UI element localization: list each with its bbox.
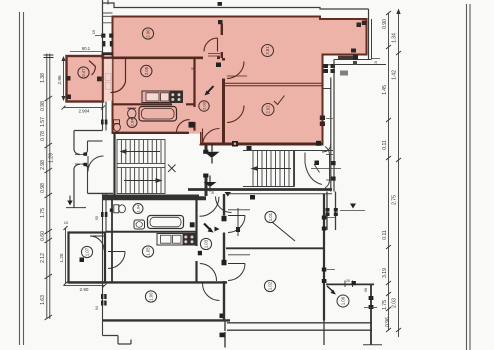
stair flights box (117, 140, 165, 194)
loggia height dim line with double arrow (63, 57, 65, 100)
window dim ticks right rooms (327, 218, 335, 270)
svg-text:1.75: 1.75 (382, 300, 388, 310)
svg-text:1.75: 1.75 (40, 208, 46, 218)
room label circle bath upper (127, 118, 137, 128)
building right wall inner line (371, 19, 373, 59)
entrance inner top wall (88, 140, 103, 142)
stair cross marks (168, 165, 176, 173)
lightwell window jambs (324, 64, 329, 68)
lower hall door jamb mark (198, 251, 202, 256)
bottom-left room door arc pair (200, 264, 217, 282)
svg-text:2.06: 2.06 (146, 29, 151, 38)
stairwell right wall with door opening (205, 146, 208, 197)
lower bath sink (134, 220, 145, 229)
room label circle hall upper (199, 101, 209, 111)
room label circle bottom-right room (337, 295, 349, 307)
extension top wall ticks (345, 281, 353, 288)
room label circle room B (262, 45, 274, 57)
svg-text:2.90: 2.90 (80, 287, 89, 292)
right wall dim tick (372, 58, 381, 60)
rear wing dim tick and arrow (340, 210, 365, 212)
room D pointer line (272, 222, 295, 241)
loggia wall ticks (66, 76, 71, 81)
bathtub upper apartment (139, 107, 177, 122)
room label circle lower hall (200, 238, 211, 249)
lightwell sill marks (340, 71, 348, 76)
svg-text:55: 55 (95, 216, 99, 220)
door arc hall to room B (227, 62, 244, 79)
rear wing double wall below landing (327, 192, 336, 231)
corridor spine thin wall (237, 208, 239, 236)
rooms D/E divider wall (226, 247, 324, 249)
svg-text:1.04: 1.04 (135, 204, 140, 213)
section mark upper (umbrella) (211, 144, 213, 152)
svg-text:15: 15 (91, 29, 96, 34)
room label circle room E (264, 280, 275, 291)
top wall window mark 2 (218, 20, 223, 24)
svg-text:1.38: 1.38 (40, 73, 46, 83)
svg-text:94: 94 (95, 306, 99, 310)
building top exterior wall outer line (103, 3, 369, 9)
svg-text:2.98: 2.98 (40, 160, 46, 170)
entrance threshold blocks (84, 152, 88, 155)
pink bottom-right wall mark (316, 141, 321, 146)
entrance inner bottom wall (88, 192, 114, 194)
lower apartment top wall (103, 195, 199, 198)
stair upper flight treads (121, 140, 161, 164)
room label circle lower WC (133, 204, 143, 214)
svg-text:90.1: 90.1 (82, 46, 91, 51)
small down arrow near stair foot (225, 192, 232, 197)
bottom-right extension right wall (370, 284, 372, 345)
room label circle room A (142, 28, 153, 39)
lower kitchen sink basins (161, 235, 172, 243)
main stair arrow pointing left (256, 168, 291, 170)
interior wall hall left (kitchen side) (193, 58, 195, 133)
svg-text:1.20: 1.20 (59, 253, 64, 262)
lower bathtub (148, 216, 184, 229)
stair handrail double line (117, 163, 165, 167)
room label circle bottom-left room (145, 291, 156, 302)
lower hall entrance arrow (204, 224, 211, 231)
stair lower flight treads (121, 168, 161, 194)
room C wall mark black square (232, 141, 238, 147)
svg-text:2.12: 2.12 (40, 253, 46, 263)
lower hall top door arc (200, 197, 220, 217)
svg-text:0.11: 0.11 (382, 230, 388, 240)
svg-text:2.75: 2.75 (392, 195, 398, 205)
right chain rotated dimension texts (382, 19, 398, 327)
kitchen balcony door leaf and arc (111, 59, 126, 93)
left wall lower window jambs (101, 212, 104, 217)
svg-text:1.08: 1.08 (341, 296, 346, 305)
building left wall stub (107, 0, 109, 5)
pink apartment main area (113, 17, 367, 145)
building bottom-left corner steps (103, 336, 132, 345)
tick mark check room C (274, 96, 285, 105)
svg-text:1.01: 1.01 (268, 212, 273, 221)
top-right wall window marks (357, 23, 362, 28)
passage pinch walls (325, 147, 330, 189)
landing door leaf and swing arc (305, 153, 322, 185)
stairwell bottom wall thick (103, 196, 206, 200)
svg-text:2.904: 2.904 (79, 109, 91, 114)
right chain B line with arrow (398, 13, 400, 337)
lower-left width dim line (64, 285, 105, 287)
bottom-right diagonal arrow (327, 286, 334, 292)
room E window jambs (322, 268, 327, 272)
rear wing wall window marks (331, 161, 336, 165)
svg-text:90: 90 (191, 67, 195, 71)
bath door leaf mark on hall wall (190, 222, 195, 227)
rear wing window jambs (326, 208, 330, 212)
svg-text:26: 26 (346, 279, 350, 283)
left secondary dim line lower (65, 228, 67, 284)
kitchen stove dark (170, 92, 183, 103)
interior wall hall right (222, 58, 225, 144)
svg-text:0.47: 0.47 (81, 68, 86, 77)
left wall window jambs (101, 34, 105, 38)
loggia door jambs in wall strip (106, 74, 112, 81)
strip between loggia and kitchen pink wash (104, 59, 112, 101)
svg-text:0.78: 0.78 (40, 131, 46, 141)
entrance threshold lines (75, 155, 87, 164)
landing corridor walls (295, 150, 334, 152)
lower bath left inner wall (111, 198, 113, 282)
door arc from left wall into kitchen (108, 252, 125, 269)
left exterior wall lower section (103, 193, 107, 335)
bottom-right dim ticks (364, 307, 377, 309)
svg-text:1.45: 1.45 (382, 85, 388, 95)
lower kitchen bottom wall (69, 281, 228, 283)
room D window jambs (322, 216, 327, 220)
rooms right exterior wall (323, 194, 325, 321)
lower hall right wall segments (223, 194, 225, 320)
door line room B (227, 75, 247, 77)
svg-text:1.29: 1.29 (49, 153, 55, 163)
building left wall upper (102, 0, 104, 56)
room C window jambs on right edge (320, 116, 325, 121)
left dimension chain double line (47, 54, 50, 320)
entrance bump-out inner wall (83, 141, 88, 193)
left exterior wall mid section (103, 102, 107, 131)
lower kitchen stove dark (183, 234, 196, 245)
left wall window jambs mid (101, 120, 104, 125)
svg-text:50: 50 (211, 190, 215, 194)
kitchen counter (142, 91, 183, 103)
svg-text:15: 15 (374, 61, 378, 65)
room E door arc (228, 264, 245, 281)
door arc hall to room C (227, 106, 244, 123)
entrance door arc (88, 156, 104, 172)
bottom-right wall window jambs (369, 296, 374, 300)
loggia door leaf (89, 61, 96, 76)
WC upper (114, 120, 120, 124)
door arc rooms A-B (204, 38, 218, 52)
svg-text:1.06: 1.06 (149, 292, 154, 301)
room label circle loggia (78, 67, 89, 78)
stair lower arrow pointing right (124, 180, 158, 182)
entrance bottom arrow (69, 196, 71, 201)
svg-text:2.01: 2.01 (265, 46, 270, 55)
apartment bottom-right window mark (351, 49, 356, 53)
room D door arc (228, 216, 245, 233)
stair top-left jamb block (247, 146, 252, 151)
lower-left room wall mark (80, 258, 85, 263)
right dimension chain line A (388, 13, 390, 330)
lower big room bottom wall (103, 319, 230, 321)
svg-text:98: 98 (364, 288, 368, 292)
page border right double line (467, 4, 471, 350)
room label circle room D (265, 211, 276, 222)
interior wall room A / kitchen (102, 56, 221, 59)
door threshold marks A-B (208, 54, 220, 56)
room label circle lower-left room (81, 246, 92, 257)
hall entrance arrow upper apartment (207, 86, 214, 93)
lower kitchen counter (157, 234, 196, 246)
door niche lines rooms D and E (228, 210, 250, 255)
loggia width dim line (64, 107, 104, 109)
entrance top wall (74, 130, 103, 132)
apartment bottom wall door gap white patch (189, 133, 200, 144)
lower WC (114, 205, 119, 213)
top wall window mark 1 (218, 2, 223, 6)
lower rooms top wall inner face (228, 193, 332, 195)
svg-text:2.04: 2.04 (129, 118, 134, 127)
stair hall extra door arc (216, 197, 232, 213)
loggia top dim marks (70, 51, 103, 53)
building top-right corner wall (368, 9, 370, 59)
lower hall left wall (195, 198, 197, 282)
svg-text:1.34: 1.34 (392, 33, 398, 43)
lower-left room door arc (90, 236, 104, 250)
svg-text:2.03: 2.03 (201, 101, 206, 110)
svg-text:1.05: 1.05 (146, 247, 151, 256)
wall segment dark top-right (338, 56, 357, 60)
stair upper arrow pointing left (124, 151, 160, 153)
apartment bottom wall right segment (201, 143, 323, 146)
interior wall kitchen / bath (113, 103, 195, 105)
hall right wall jamb blocks (222, 216, 227, 222)
section mark lower (umbrella) (209, 176, 211, 183)
svg-text:1.02: 1.02 (268, 281, 273, 290)
wall mark near top of extension (352, 281, 356, 285)
svg-text:2.03: 2.03 (392, 298, 398, 308)
left chain tick marks (45, 96, 53, 320)
svg-text:0.98: 0.98 (40, 183, 46, 193)
small arrow right of entrance arrow (215, 227, 220, 232)
apartment bottom wall left segment (113, 132, 189, 134)
left chain top tick cluster (44, 55, 54, 58)
lower-left room walls (69, 233, 106, 283)
main stair boundary (243, 151, 295, 187)
svg-text:0.90: 0.90 (382, 19, 388, 29)
rear wing wall curve into stair landing (322, 143, 331, 152)
entrance bump-out outer wall (74, 131, 80, 208)
hall wall black mark (216, 63, 221, 68)
bottom corridor double wall (227, 323, 372, 330)
entrance door leaf black (189, 122, 195, 128)
apartment entrance door arc (203, 129, 220, 146)
stairwell door jamb blocks (203, 150, 208, 154)
svg-text:0.98: 0.98 (40, 101, 46, 111)
svg-text:2.96: 2.96 (57, 75, 63, 85)
stairwell left wall (113, 134, 115, 199)
lightwell notch right of apartment (323, 60, 387, 89)
main stair treads (253, 151, 294, 187)
svg-text:1.07: 1.07 (85, 247, 90, 256)
lower bath/kitchen divider wall (106, 231, 196, 233)
svg-text:0.11: 0.11 (382, 140, 388, 150)
landing door black mark (315, 161, 320, 166)
bottom-right extension top wall (326, 283, 374, 285)
bath sink upper (128, 109, 136, 119)
left wall dark band (102, 52, 114, 55)
svg-text:2.02: 2.02 (266, 105, 271, 114)
page border left double line (20, 12, 24, 345)
room label circle kitchen (141, 65, 152, 76)
misc small dimension texts (95, 61, 378, 310)
left chain rotated dimension texts (40, 73, 55, 305)
kitchen sink basins (146, 93, 159, 101)
right chain A ticks (386, 11, 391, 332)
left wall dim tick (95, 35, 101, 37)
svg-text:3.19: 3.19 (382, 268, 388, 278)
left wall window lines (103, 13, 113, 23)
rear wing right exterior wall (331, 60, 334, 192)
svg-text:1.03: 1.03 (204, 239, 209, 248)
svg-text:0.60: 0.60 (40, 231, 46, 241)
svg-text:10: 10 (64, 220, 69, 225)
svg-text:1.57: 1.57 (40, 117, 46, 127)
svg-text:2.05: 2.05 (144, 66, 149, 75)
bath door arc (177, 120, 190, 133)
bottom wall stub and tick (224, 320, 226, 348)
interior wall rooms B / C double line (224, 83, 323, 86)
svg-text:1.63: 1.63 (40, 295, 46, 305)
pink loggia room top-left (67, 56, 104, 102)
room label circle lower kitchen (142, 246, 153, 257)
svg-text:1.42: 1.42 (392, 70, 398, 80)
interior wall between rooms A and B (221, 24, 223, 59)
svg-text:0.96: 0.96 (385, 317, 391, 327)
room label circle room C (262, 104, 274, 116)
